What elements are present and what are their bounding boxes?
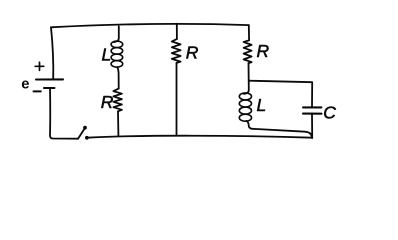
svg-text:L: L — [257, 95, 267, 115]
resistor R branch1 — [113, 89, 122, 112]
wire branch3 bottom lead — [247, 121, 312, 137]
wire bottom bus — [87, 136, 312, 138]
switch S — [78, 126, 89, 140]
wire branch1 top lead — [114, 26, 119, 42]
wire branch2 bottom lead — [176, 63, 178, 135]
label minus — [34, 90, 41, 92]
inductor L branch3 — [239, 93, 251, 121]
wire capacitor top lead — [249, 81, 312, 108]
wire branch1 middle lead — [117, 67, 118, 89]
wire branch3 top lead — [248, 25, 250, 40]
resistor R branch3 — [244, 40, 252, 63]
svg-text:R: R — [257, 41, 270, 61]
svg-text:C: C — [323, 102, 336, 122]
wire branch3 middle lead node — [244, 63, 249, 94]
wire branch1 bottom lead — [117, 111, 119, 135]
wire branch2 top lead — [176, 24, 178, 39]
svg-text:L: L — [102, 45, 112, 65]
svg-text:R: R — [186, 42, 199, 62]
svg-text:R: R — [101, 92, 114, 112]
wire left vertical battery top lead — [51, 27, 53, 79]
wire battery bottom lead — [50, 88, 78, 139]
wire top bus — [51, 24, 249, 27]
svg-text:e: e — [21, 76, 29, 92]
capacitor C — [303, 107, 322, 113]
battery E plates — [36, 79, 63, 88]
resistor R branch2 — [172, 39, 181, 63]
label + — [35, 62, 44, 70]
wire capacitor bottom lead — [311, 114, 313, 138]
inductor L branch1 — [111, 41, 123, 67]
